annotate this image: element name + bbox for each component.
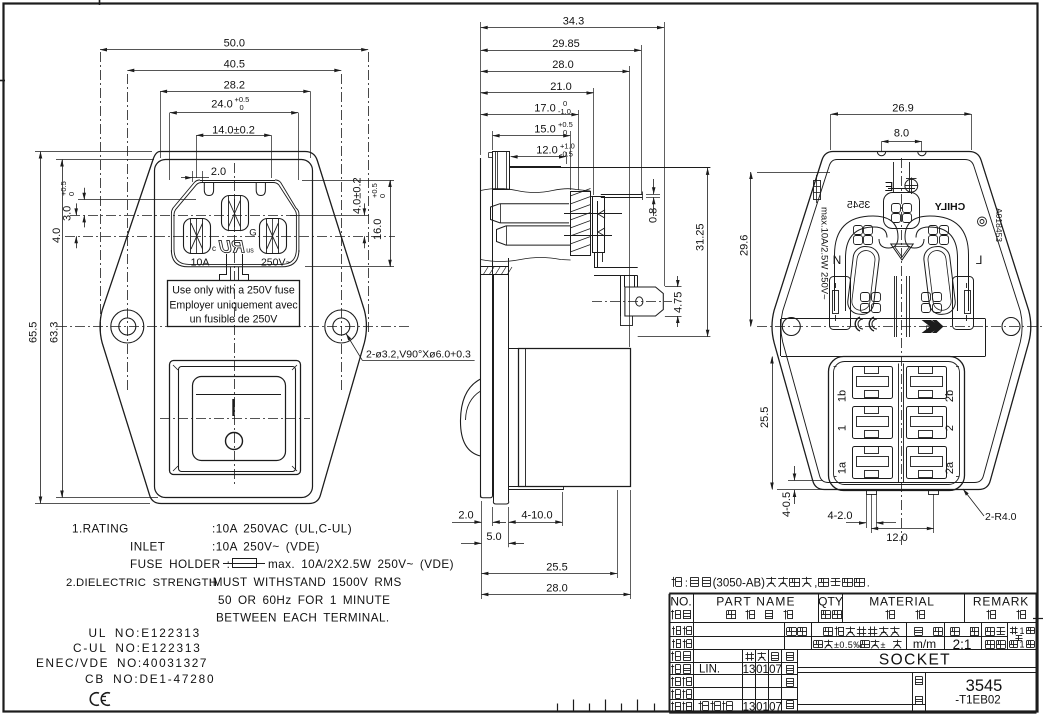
svg-text:QTY: QTY [818, 595, 843, 609]
svg-text:17.0: 17.0 [534, 102, 555, 114]
svg-text:25.5: 25.5 [546, 562, 567, 574]
svg-text:28.0: 28.0 [546, 582, 567, 594]
svg-text:8.0: 8.0 [894, 128, 909, 140]
svg-text:4.75: 4.75 [673, 292, 685, 313]
svg-text:0: 0 [240, 103, 244, 112]
svg-text:PART NAME: PART NAME [716, 595, 795, 609]
svg-text:2:1: 2:1 [953, 637, 972, 652]
svg-text:65.5: 65.5 [28, 322, 40, 343]
svg-text:UL NO:E122313: UL NO:E122313 [89, 626, 202, 640]
svg-text:10A: 10A [191, 256, 210, 268]
svg-text:1a: 1a [837, 461, 849, 474]
svg-text:±: ± [881, 640, 886, 650]
svg-text:Employer uniquement avec: Employer uniquement avec [169, 300, 298, 312]
svg-text::MUST WITHSTAND 1500V RMS: :MUST WITHSTAND 1500V RMS [209, 576, 402, 589]
svg-text:D: D [926, 325, 931, 332]
svg-text:2: 2 [944, 425, 956, 431]
svg-text:29.85: 29.85 [552, 38, 580, 50]
svg-text:24.0: 24.0 [211, 99, 232, 111]
svg-text:C-UL NO:E122313: C-UL NO:E122313 [73, 641, 202, 655]
svg-text:2.DIELECTRIC STRENGTH: 2.DIELECTRIC STRENGTH [66, 577, 217, 589]
svg-text:3545: 3545 [847, 199, 871, 211]
svg-text:14.0±0.2: 14.0±0.2 [212, 124, 255, 136]
svg-text:2-ø3.2,V90°Xø6.0+0.3: 2-ø3.2,V90°Xø6.0+0.3 [366, 349, 471, 361]
svg-text:0.8: 0.8 [648, 208, 660, 223]
svg-text:4.0±0.2: 4.0±0.2 [352, 177, 364, 214]
svg-text:0: 0 [563, 128, 567, 137]
svg-text:2b: 2b [944, 390, 956, 402]
svg-text:07: 07 [769, 702, 782, 714]
svg-text:13: 13 [743, 664, 756, 676]
svg-text:01: 01 [756, 702, 769, 714]
svg-text:BETWEEN EACH TERMINAL.: BETWEEN EACH TERMINAL. [216, 612, 390, 625]
svg-text:RU: RU [217, 237, 246, 257]
svg-text::10A 250V~ (VDE): :10A 250V~ (VDE) [212, 541, 320, 554]
svg-text:E: E [884, 179, 893, 194]
svg-text:26.9: 26.9 [892, 103, 913, 115]
svg-text:01: 01 [756, 664, 769, 676]
svg-text:us: us [246, 248, 254, 255]
svg-text:A018453: A018453 [994, 208, 1004, 242]
svg-text:-T1EB02: -T1EB02 [955, 695, 1000, 707]
svg-text:5.0: 5.0 [486, 531, 501, 543]
svg-text:Use only with a 250V fuse: Use only with a 250V fuse [172, 285, 295, 297]
svg-text:2.0: 2.0 [458, 510, 473, 522]
svg-text:40.5: 40.5 [224, 58, 245, 70]
svg-text:N: N [833, 253, 842, 267]
svg-text:0: 0 [378, 194, 387, 198]
svg-text:29.6: 29.6 [739, 235, 751, 256]
svg-text:FUSE HOLDER :: FUSE HOLDER : [130, 558, 230, 571]
svg-text:NO.: NO. [670, 595, 691, 609]
svg-text:1: 1 [1019, 640, 1024, 650]
svg-text:un fusible de 250V: un fusible de 250V [190, 314, 279, 326]
svg-text:,: , [814, 578, 817, 590]
svg-text:07: 07 [769, 664, 782, 676]
svg-text:28.0: 28.0 [552, 59, 573, 71]
svg-text:21.0: 21.0 [550, 81, 571, 93]
svg-text:±0.5‰: ±0.5‰ [834, 640, 863, 650]
svg-text:50.0: 50.0 [224, 38, 245, 50]
svg-text:4-2.0: 4-2.0 [827, 510, 852, 522]
svg-text:2.0: 2.0 [211, 166, 226, 178]
svg-text:LIN.: LIN. [699, 664, 720, 676]
svg-text:1.RATING: 1.RATING [72, 523, 129, 536]
svg-text:max.10A/2.5W 250V~: max.10A/2.5W 250V~ [819, 207, 830, 300]
svg-text:REMARK: REMARK [973, 595, 1029, 609]
svg-text:2a: 2a [944, 461, 956, 474]
svg-text:12.0: 12.0 [536, 145, 557, 157]
svg-text:max. 10A/2X2.5W 250V~ (VDE): max. 10A/2X2.5W 250V~ (VDE) [268, 558, 454, 571]
svg-text:4.0: 4.0 [51, 228, 63, 243]
svg-text:(3050-AB): (3050-AB) [713, 578, 766, 590]
svg-text:1: 1 [1019, 626, 1024, 636]
svg-text:-1.0: -1.0 [558, 107, 571, 116]
svg-text:63.3: 63.3 [49, 322, 61, 343]
svg-text:ENEC/VDE NO:40031327: ENEC/VDE NO:40031327 [36, 656, 208, 670]
svg-text:m/m: m/m [913, 637, 936, 651]
svg-text:28.2: 28.2 [224, 80, 245, 92]
svg-text:CHILY: CHILY [935, 201, 966, 213]
svg-text:L: L [975, 253, 982, 267]
svg-text:INLET: INLET [130, 541, 165, 554]
svg-text:4-0.5: 4-0.5 [781, 492, 793, 517]
svg-text:31.25: 31.25 [695, 223, 707, 251]
svg-text:50 OR 60Hz FOR 1 MINUTE: 50 OR 60Hz FOR 1 MINUTE [218, 594, 390, 607]
svg-text:c: c [212, 244, 216, 253]
svg-text:2-R4.0: 2-R4.0 [985, 511, 1017, 523]
svg-text:1: 1 [837, 425, 849, 431]
svg-text:16.0: 16.0 [372, 219, 384, 240]
svg-text:250V~: 250V~ [261, 256, 292, 268]
svg-text:34.3: 34.3 [563, 15, 584, 27]
svg-text:MATERIAL: MATERIAL [869, 595, 935, 609]
svg-text::10A 250VAC (UL,C-UL): :10A 250VAC (UL,C-UL) [212, 523, 352, 536]
svg-text:3.0: 3.0 [62, 206, 74, 221]
svg-text:3545: 3545 [966, 677, 1003, 695]
svg-text:.: . [867, 578, 870, 590]
svg-text:15.0: 15.0 [534, 124, 555, 136]
svg-text:25.5: 25.5 [759, 407, 771, 428]
svg-text:4-10.0: 4-10.0 [521, 510, 552, 522]
svg-text:CB NO:DE1-47280: CB NO:DE1-47280 [85, 672, 215, 686]
svg-text:0: 0 [67, 192, 76, 196]
svg-text::: : [685, 578, 688, 590]
svg-text:13: 13 [743, 702, 756, 714]
svg-text:1b: 1b [837, 390, 849, 402]
svg-text:12.0: 12.0 [886, 532, 907, 544]
svg-text:SOCKET: SOCKET [879, 652, 951, 669]
